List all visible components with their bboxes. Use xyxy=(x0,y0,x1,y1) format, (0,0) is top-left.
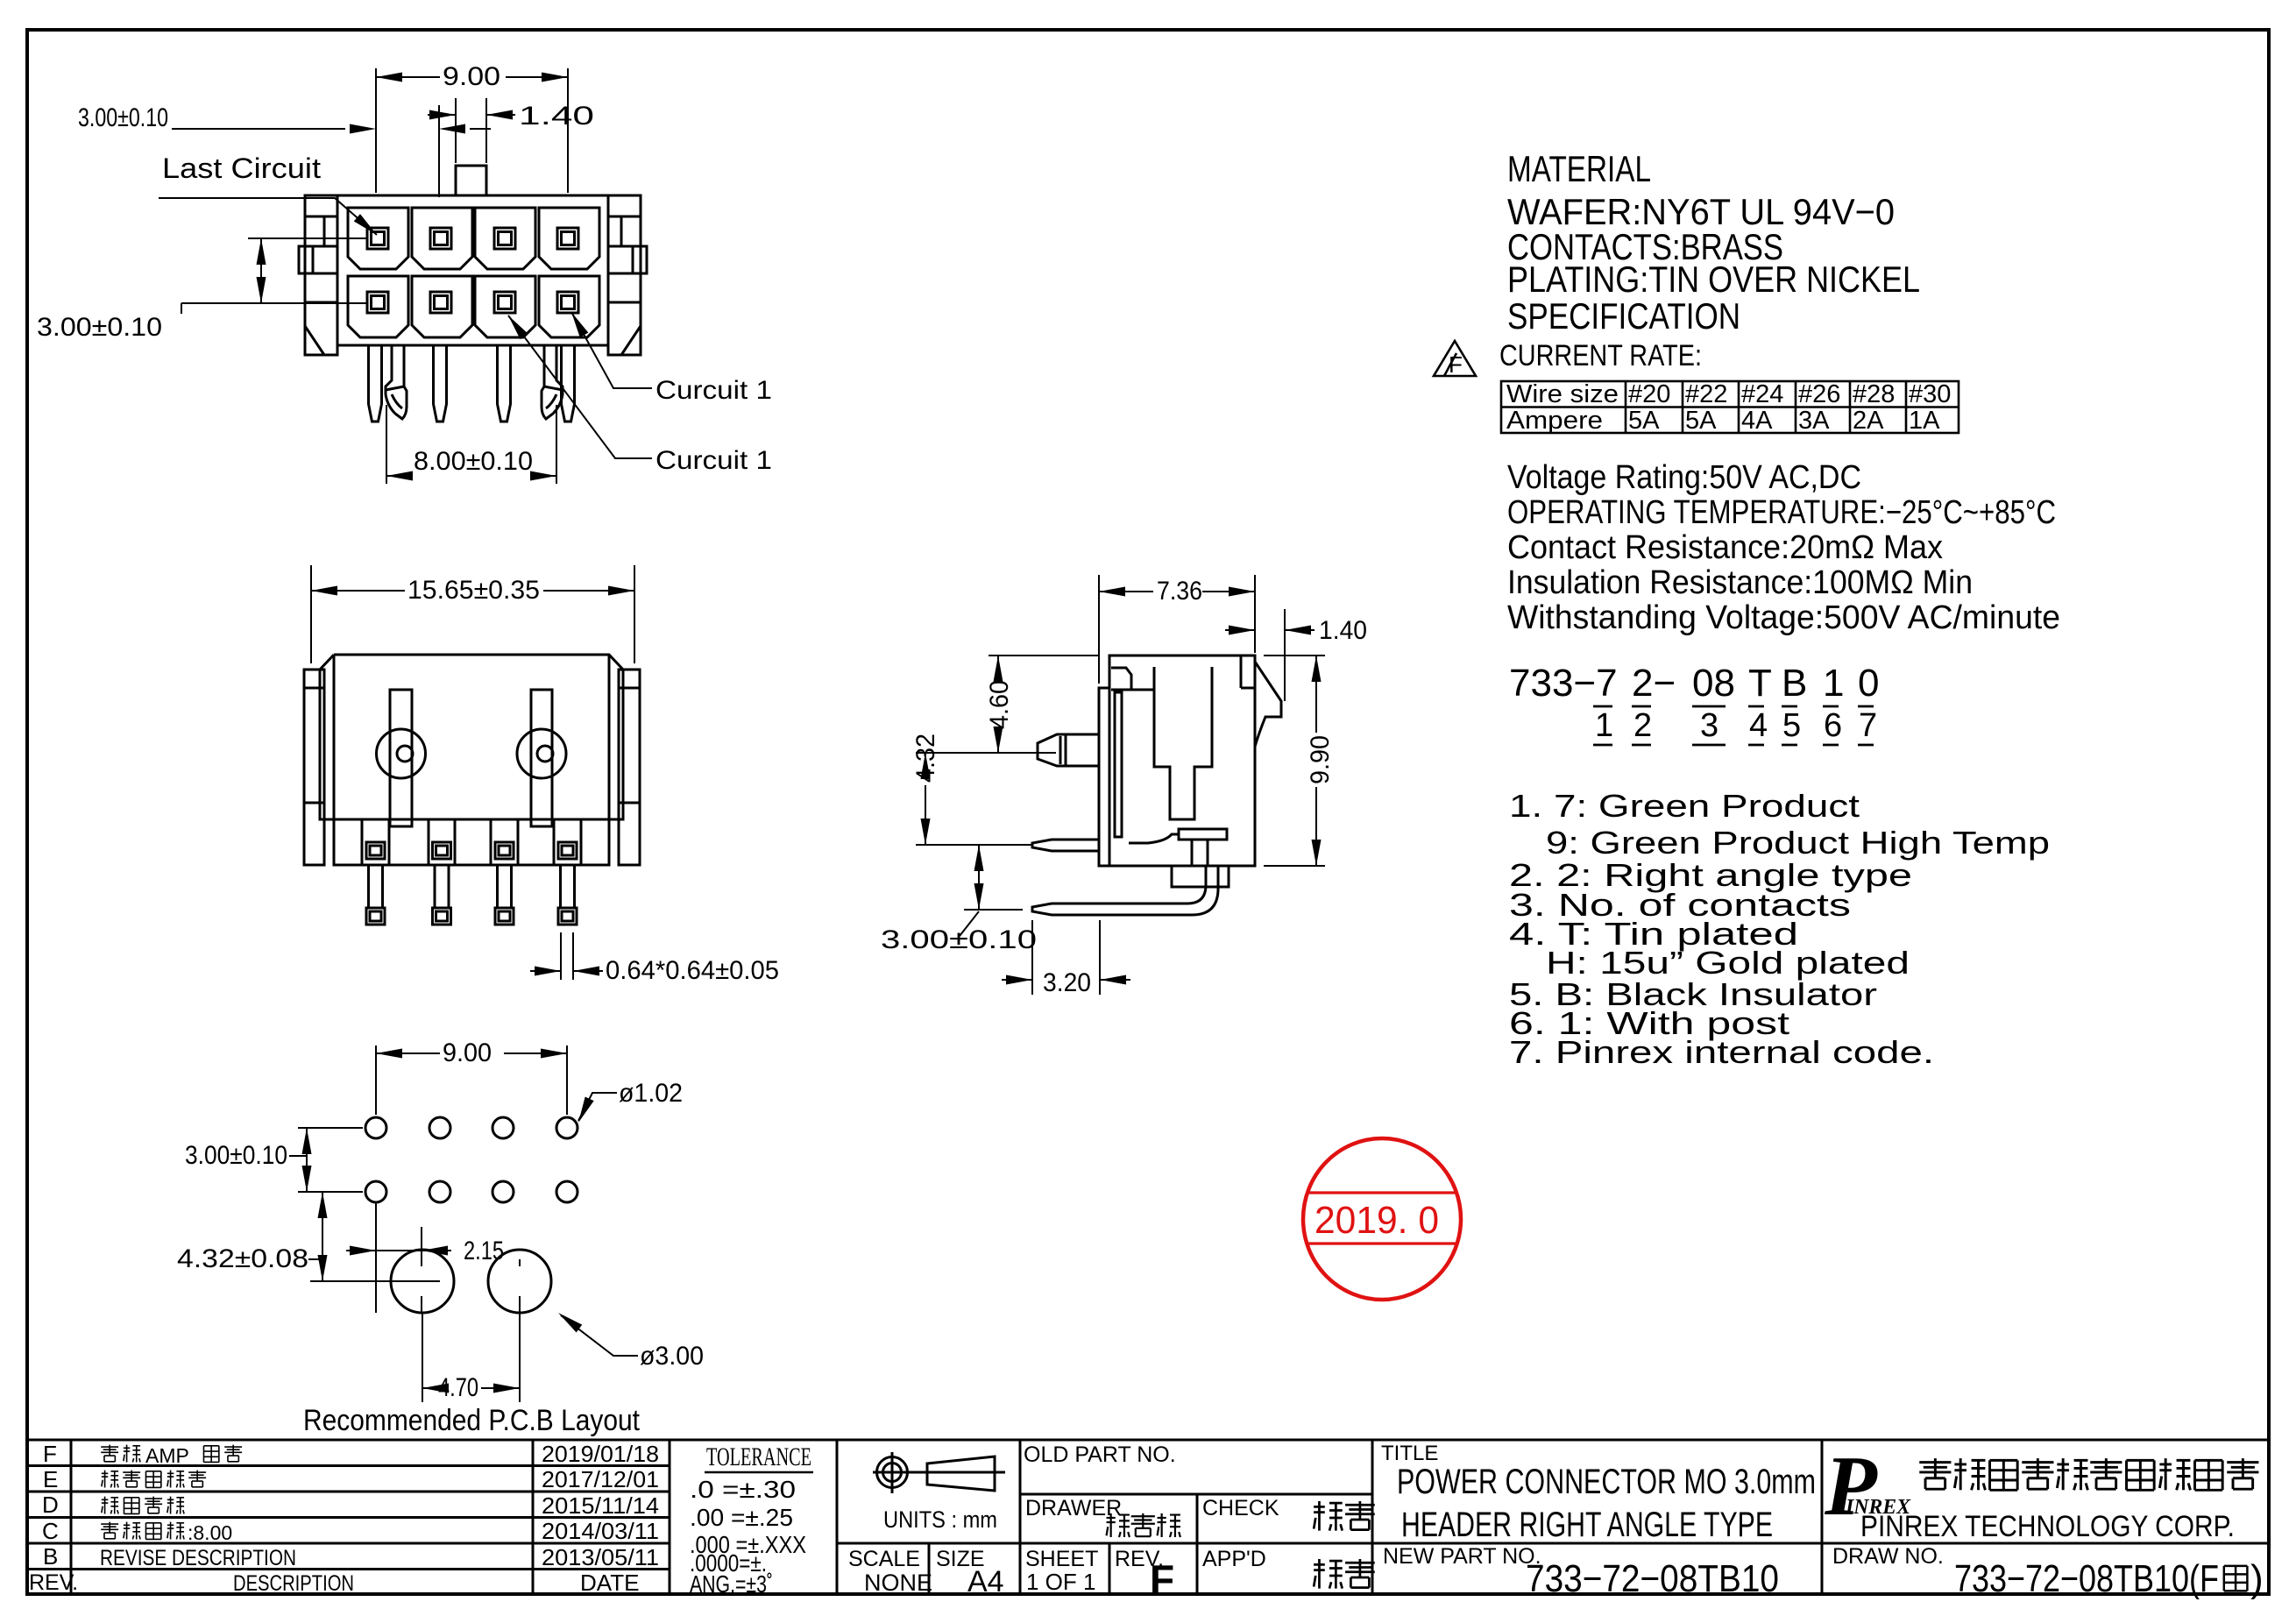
svg-text:Withstanding Voltage:500V AC/m: Withstanding Voltage:500V AC/minute xyxy=(1507,599,2060,636)
svg-text:C: C xyxy=(42,1518,59,1544)
svg-text:1.40: 1.40 xyxy=(519,102,594,131)
svg-text:4.32±0.08: 4.32±0.08 xyxy=(177,1244,308,1273)
svg-text:#30: #30 xyxy=(1909,380,1951,408)
svg-text:5: 5 xyxy=(1782,707,1801,744)
svg-text:1: 1 xyxy=(1823,662,1844,705)
svg-text:2: 2 xyxy=(1633,707,1652,744)
svg-text:MATERIAL: MATERIAL xyxy=(1507,148,1651,189)
svg-text:4.70: 4.70 xyxy=(438,1373,478,1402)
svg-text:1: 1 xyxy=(1595,707,1613,744)
svg-text:4A: 4A xyxy=(1741,407,1773,435)
svg-text:F: F xyxy=(1449,351,1463,378)
svg-text:2019. 0: 2019. 0 xyxy=(1315,1199,1439,1242)
svg-text:2019/01/18: 2019/01/18 xyxy=(542,1441,659,1467)
svg-text:Curcuit 1: Curcuit 1 xyxy=(655,446,772,475)
svg-text:6: 6 xyxy=(1824,707,1842,744)
svg-text:733−7: 733−7 xyxy=(1509,662,1618,705)
svg-text:1.40: 1.40 xyxy=(1319,616,1367,645)
svg-text:3.20: 3.20 xyxy=(1043,968,1091,997)
svg-text:#28: #28 xyxy=(1853,380,1895,408)
svg-text:Voltage Rating:50V AC,DC: Voltage Rating:50V AC,DC xyxy=(1507,459,1861,496)
svg-text:2015/11/14: 2015/11/14 xyxy=(542,1492,659,1519)
svg-text:2.15: 2.15 xyxy=(464,1237,504,1265)
svg-text:5A: 5A xyxy=(1628,407,1660,435)
svg-text:B: B xyxy=(43,1543,58,1570)
svg-text:0: 0 xyxy=(1858,662,1879,705)
svg-text:OLD PART NO.: OLD PART NO. xyxy=(1024,1442,1176,1467)
svg-text:TITLE: TITLE xyxy=(1381,1442,1438,1465)
svg-text:Wire size: Wire size xyxy=(1506,380,1619,408)
svg-text:ø1.02: ø1.02 xyxy=(619,1079,683,1108)
svg-text:9.00: 9.00 xyxy=(443,62,500,91)
svg-text:4.60: 4.60 xyxy=(985,680,1014,729)
svg-text:1. 7: Green Product: 1. 7: Green Product xyxy=(1509,788,1860,824)
svg-text:CHECK: CHECK xyxy=(1202,1496,1279,1520)
svg-text:F: F xyxy=(43,1441,57,1467)
svg-text:2013/05/11: 2013/05/11 xyxy=(542,1544,659,1570)
svg-text:SCALE: SCALE xyxy=(848,1547,920,1571)
svg-text:9.90: 9.90 xyxy=(1306,735,1335,784)
svg-text:15.65±0.35: 15.65±0.35 xyxy=(407,576,540,605)
svg-text:DRAWER: DRAWER xyxy=(1025,1496,1122,1520)
svg-text:2014/03/11: 2014/03/11 xyxy=(542,1518,659,1544)
svg-text:7. Pinrex internal code.: 7. Pinrex internal code. xyxy=(1509,1034,1934,1070)
svg-text:Last Circuit: Last Circuit xyxy=(162,152,321,184)
svg-text:AMP: AMP xyxy=(145,1444,189,1467)
svg-text:#20: #20 xyxy=(1628,380,1670,408)
svg-text:DESCRIPTION: DESCRIPTION xyxy=(233,1571,354,1596)
svg-text:3A: 3A xyxy=(1798,407,1830,435)
svg-text:PLATING:TIN OVER NICKEL: PLATING:TIN OVER NICKEL xyxy=(1507,259,1920,300)
svg-text:7.36: 7.36 xyxy=(1157,577,1202,606)
svg-text:APP'D: APP'D xyxy=(1202,1547,1266,1571)
svg-text:Ampere: Ampere xyxy=(1506,407,1603,435)
svg-text:CURRENT RATE:: CURRENT RATE: xyxy=(1499,339,1702,372)
svg-text:NEW PART NO.: NEW PART NO. xyxy=(1383,1544,1541,1569)
svg-text:T: T xyxy=(1748,662,1772,705)
svg-text:733−72−08TB10(F: 733−72−08TB10(F xyxy=(1954,1557,2219,1600)
svg-text:SPECIFICATION: SPECIFICATION xyxy=(1507,295,1740,337)
svg-text:1A: 1A xyxy=(1909,407,1940,435)
svg-text:PINREX TECHNOLOGY CORP.: PINREX TECHNOLOGY CORP. xyxy=(1860,1510,2235,1543)
svg-text:#22: #22 xyxy=(1685,380,1727,408)
svg-text:2−: 2− xyxy=(1632,662,1676,705)
svg-text:POWER CONNECTOR MO 3.0mm: POWER CONNECTOR MO 3.0mm xyxy=(1397,1463,1816,1501)
svg-text::8.00: :8.00 xyxy=(188,1521,232,1544)
svg-text:F: F xyxy=(1150,1556,1174,1602)
svg-text:4.32: 4.32 xyxy=(911,734,940,783)
svg-text:OPERATING TEMPERATURE:−25°C~+8: OPERATING TEMPERATURE:−25°C~+85°C xyxy=(1507,494,2056,531)
svg-text:TOLERANCE: TOLERANCE xyxy=(706,1442,811,1471)
svg-text:.00 =±.25: .00 =±.25 xyxy=(690,1504,793,1531)
svg-text:ø3.00: ø3.00 xyxy=(640,1342,704,1371)
svg-text:2A: 2A xyxy=(1853,407,1884,435)
svg-text:SHEET: SHEET xyxy=(1025,1547,1098,1571)
svg-text:REV.: REV. xyxy=(29,1570,78,1595)
svg-text:B: B xyxy=(1782,662,1807,705)
svg-text:9: Green Product High Temp: 9: Green Product High Temp xyxy=(1546,825,2050,861)
svg-text:Insulation Resistance:100MΩ Mi: Insulation Resistance:100MΩ Min xyxy=(1507,564,1973,601)
svg-text:Recommended P.C.B Layout: Recommended P.C.B Layout xyxy=(303,1404,640,1437)
svg-text:1 OF 1: 1 OF 1 xyxy=(1026,1569,1095,1595)
svg-text:9.00: 9.00 xyxy=(443,1038,492,1067)
svg-text:7: 7 xyxy=(1859,707,1877,744)
svg-text:REVISE DESCRIPTION: REVISE DESCRIPTION xyxy=(100,1546,296,1570)
svg-text:8.00±0.10: 8.00±0.10 xyxy=(414,447,533,476)
svg-text:4: 4 xyxy=(1749,707,1768,744)
svg-text:A4: A4 xyxy=(967,1565,1004,1598)
svg-text:3.00±0.10: 3.00±0.10 xyxy=(881,925,1037,954)
svg-text:3: 3 xyxy=(1700,707,1718,744)
svg-text:3.00±0.10: 3.00±0.10 xyxy=(185,1141,287,1170)
svg-text:5A: 5A xyxy=(1685,407,1717,435)
svg-text:HEADER RIGHT ANGLE TYPE: HEADER RIGHT ANGLE TYPE xyxy=(1401,1506,1773,1544)
svg-text:0.64*0.64±0.05: 0.64*0.64±0.05 xyxy=(606,956,779,985)
svg-text:H: 15u” Gold plated: H: 15u” Gold plated xyxy=(1546,945,1910,981)
svg-text:D: D xyxy=(42,1492,59,1518)
svg-text:UNITS : mm: UNITS : mm xyxy=(883,1506,997,1533)
svg-text:08: 08 xyxy=(1692,662,1735,705)
svg-text:#26: #26 xyxy=(1798,380,1840,408)
svg-text:.0 =±.30: .0 =±.30 xyxy=(690,1476,796,1503)
svg-text:733−72−08TB10: 733−72−08TB10 xyxy=(1526,1557,1779,1600)
svg-text:3.00±0.10: 3.00±0.10 xyxy=(78,103,168,132)
svg-text:NONE: NONE xyxy=(864,1570,932,1596)
svg-text:DATE: DATE xyxy=(580,1570,639,1596)
svg-text:#24: #24 xyxy=(1741,380,1783,408)
svg-text:ANG.=±3˚: ANG.=±3˚ xyxy=(690,1570,773,1598)
svg-text:Curcuit 1: Curcuit 1 xyxy=(655,376,772,405)
svg-text:E: E xyxy=(43,1466,58,1492)
svg-text:2017/12/01: 2017/12/01 xyxy=(542,1466,659,1492)
svg-text:): ) xyxy=(2250,1557,2264,1600)
svg-text:DRAW NO.: DRAW NO. xyxy=(1832,1544,1944,1569)
svg-text:3.00±0.10: 3.00±0.10 xyxy=(37,313,162,342)
svg-text:Contact Resistance:20mΩ Max: Contact Resistance:20mΩ Max xyxy=(1507,529,1943,566)
